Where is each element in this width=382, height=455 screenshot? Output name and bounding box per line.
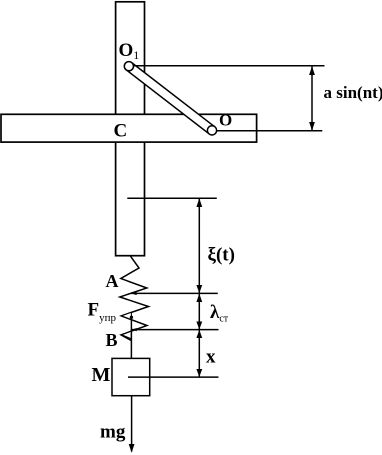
mass M box xyxy=(112,358,150,395)
svg-text:ξ(t): ξ(t) xyxy=(208,245,235,266)
small arrow at tick B xyxy=(132,328,137,331)
F_upr arrow dot xyxy=(130,316,133,319)
crossbar C xyxy=(1,114,257,142)
spring arrowhead at point B xyxy=(122,331,132,339)
svg-text:O: O xyxy=(219,111,232,130)
tick at point A level xyxy=(131,292,218,294)
link O1-O xyxy=(126,63,215,134)
mg force arrow xyxy=(129,396,135,453)
tick at rod end reference xyxy=(127,197,217,199)
spring arrowhead at F application point xyxy=(122,312,132,319)
vertical rod xyxy=(116,2,145,256)
tick at mass center xyxy=(128,376,219,378)
dimension a sin(nt) bottom reference line xyxy=(217,130,323,132)
pin O xyxy=(207,126,216,135)
svg-text:mg: mg xyxy=(100,422,126,443)
dimension xi(t) xyxy=(196,198,202,293)
svg-text:a sin(nt): a sin(nt) xyxy=(324,83,382,102)
small arrow at tick A xyxy=(131,292,136,295)
svg-text:C: C xyxy=(114,121,128,142)
svg-text:M: M xyxy=(92,364,111,386)
tick at point B level xyxy=(131,329,219,331)
dimension x xyxy=(196,330,202,377)
spring xyxy=(120,256,149,341)
dimension a sin(nt) top reference line xyxy=(134,65,325,67)
F_upr force line xyxy=(130,317,132,358)
dimension a sin(nt) arrow line xyxy=(309,66,315,130)
svg-text:B: B xyxy=(106,330,118,350)
svg-text:A: A xyxy=(106,271,119,291)
svg-text:x: x xyxy=(206,347,216,368)
pivot O1 xyxy=(124,62,133,71)
dimension lambda_st xyxy=(196,294,202,330)
